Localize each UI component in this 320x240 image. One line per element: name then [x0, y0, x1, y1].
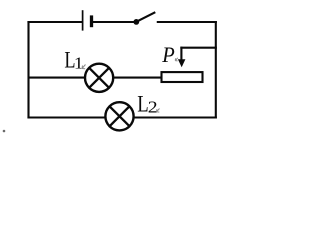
- svg-text:1: 1: [74, 53, 83, 72]
- svg-text:2: 2: [148, 98, 158, 116]
- svg-text:P: P: [161, 42, 174, 67]
